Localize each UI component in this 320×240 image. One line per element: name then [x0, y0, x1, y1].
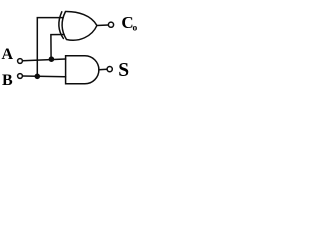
svg-text:o: o	[133, 24, 138, 34]
svg-text:A: A	[2, 46, 14, 63]
svg-text:S: S	[118, 60, 129, 81]
svg-text:B: B	[2, 72, 13, 89]
